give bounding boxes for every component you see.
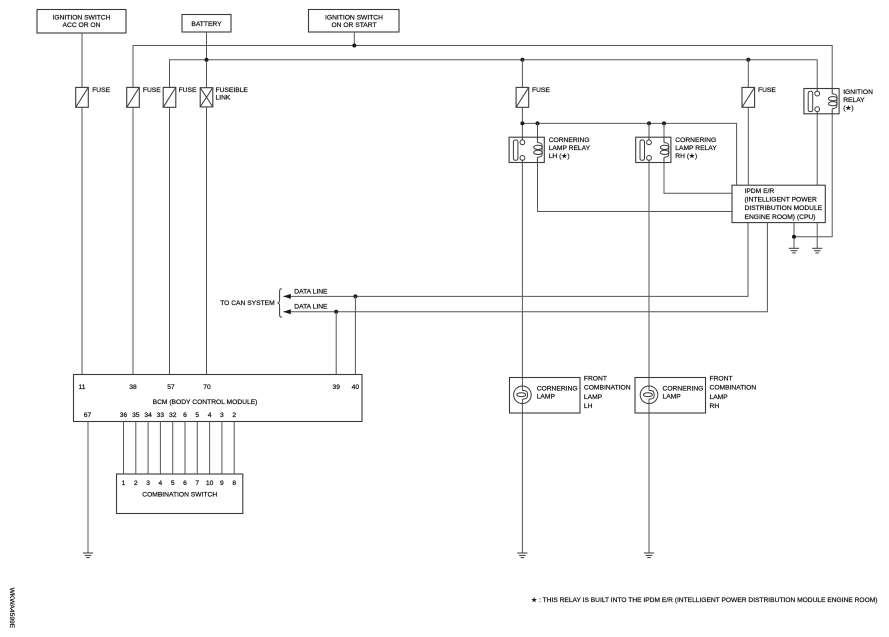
wires: BCM to combination switch <box>124 422 235 475</box>
ground: cornering lamp RH <box>644 553 654 558</box>
brace: CAN system <box>278 289 282 317</box>
svg-text:57: 57 <box>167 384 175 391</box>
svg-text:LAMP: LAMP <box>537 394 556 401</box>
svg-text:ON OR START: ON OR START <box>331 22 376 29</box>
wire: fuse F4 down to LH relay contact <box>521 107 523 137</box>
svg-text:CORNERING: CORNERING <box>537 385 578 392</box>
node: junction bus C at RH relay contact <box>647 121 651 125</box>
svg-text:36: 36 <box>120 412 128 419</box>
wire: bus C drop to LH relay coil <box>537 123 539 137</box>
box: IGNITION SWITCH ON OR START <box>309 10 400 33</box>
lamp: cornering lamp LH <box>514 386 532 404</box>
box: COMBINATION SWITCH <box>117 474 243 514</box>
svg-text:RELAY: RELAY <box>843 97 865 104</box>
svg-text:70: 70 <box>203 384 211 391</box>
wire: data line 2 to BCM pin 39 <box>335 312 337 375</box>
fuseible link FL <box>200 88 213 107</box>
fuse F3 <box>163 87 176 107</box>
label: CORNERING LAMP RELAY LH <box>549 137 591 160</box>
ground: IPDM right <box>812 248 822 253</box>
wire: battery down to fuseible link <box>206 32 208 88</box>
svg-text:DATA LINE: DATA LINE <box>294 304 328 311</box>
svg-text:IGNITION: IGNITION <box>843 89 873 96</box>
wire: ignition switch ACC to fuse F1 <box>81 33 83 87</box>
svg-text:COMBINATION SWITCH: COMBINATION SWITCH <box>142 492 217 499</box>
node: junction bus C at LH relay coil <box>536 121 540 125</box>
svg-text:5: 5 <box>195 412 199 419</box>
svg-text:FUSE: FUSE <box>532 87 550 94</box>
svg-text:40: 40 <box>352 384 360 391</box>
wire: fuse F1 to BCM pin 11 <box>81 107 83 374</box>
wire: ignition relay coil return to ground junction <box>794 114 832 237</box>
wire: LH relay contact to cornering lamp LH <box>521 163 523 391</box>
box: front combination lamp LH <box>510 378 581 414</box>
arrow: data line 1 <box>283 294 291 299</box>
wire: cornering lamp RH to ground <box>648 399 650 553</box>
svg-text:(★): (★) <box>843 104 853 112</box>
svg-text:ACC OR ON: ACC OR ON <box>63 22 101 29</box>
wire: IPDM ground lead right <box>816 223 818 249</box>
svg-text:6: 6 <box>183 480 187 487</box>
svg-text:ENGINE ROOM) (CPU): ENGINE ROOM) (CPU) <box>745 214 816 221</box>
wire: data line 1 to BCM pin 40 <box>354 296 356 374</box>
svg-text:8: 8 <box>232 480 236 487</box>
wire: bus C drop to RH relay contact <box>648 123 650 137</box>
wire: fuse F3 to BCM pin 57 <box>169 107 171 374</box>
svg-text:FUSE: FUSE <box>143 87 161 94</box>
svg-text:RH: RH <box>710 403 720 410</box>
node: junction bus C at LH relay contact <box>520 121 524 125</box>
box: BATTERY <box>182 15 231 33</box>
label: FRONT COMBINATION LAMP LH <box>584 376 631 411</box>
svg-text:BCM (BODY CONTROL MODULE): BCM (BODY CONTROL MODULE) <box>153 399 258 406</box>
svg-text:COMBINATION: COMBINATION <box>584 385 631 392</box>
svg-text:CORNERING: CORNERING <box>663 385 704 392</box>
wire: ignition relay fuse F5 to IPDM <box>747 107 749 185</box>
svg-text:DISTRIBUTION MODULE: DISTRIBUTION MODULE <box>745 205 823 212</box>
svg-text:6: 6 <box>183 412 187 419</box>
svg-text:FUSE: FUSE <box>179 87 197 94</box>
svg-text:DATA LINE: DATA LINE <box>294 289 328 296</box>
svg-text:33: 33 <box>157 412 165 419</box>
svg-text:CORNERING: CORNERING <box>675 137 716 144</box>
combination switch pins 1 2 3 4 5 6 7 10 9 8 <box>122 480 237 487</box>
svg-text:TO CAN SYSTEM: TO CAN SYSTEM <box>220 300 275 307</box>
node: junction ignition switch on bus A <box>352 44 356 48</box>
wire: bus B drop to fuse F4 <box>521 60 523 88</box>
node: junction ground link <box>792 235 796 239</box>
wire: fuseible link to BCM pin 70 <box>206 107 208 375</box>
svg-text:3: 3 <box>220 412 224 419</box>
wire: ignition switch ON OR START down to bus A <box>353 32 355 46</box>
svg-text:LAMP: LAMP <box>663 394 682 401</box>
arrow: data line 2 <box>283 309 291 314</box>
wire: bus B from fuse F3 to ignition relay contact <box>170 60 818 89</box>
svg-text:IGNITION SWITCH: IGNITION SWITCH <box>53 15 111 22</box>
svg-text:FUSE: FUSE <box>758 87 776 94</box>
svg-text:FRONT: FRONT <box>710 376 733 383</box>
wire: bus C from fuse F4 to IPDM top <box>522 123 736 185</box>
svg-text:3: 3 <box>146 480 150 487</box>
box: IPDM E/R <box>732 185 825 222</box>
BCM bottom pins 36 35 34 33 32 6 5 4 3 2 <box>120 412 237 419</box>
svg-text:CORNERING: CORNERING <box>549 137 590 144</box>
svg-text:WKWA4599E: WKWA4599E <box>8 588 15 629</box>
svg-text:10: 10 <box>206 480 214 487</box>
svg-text:COMBINATION: COMBINATION <box>710 385 757 392</box>
svg-text:RH (★): RH (★) <box>675 152 697 160</box>
wire: LH relay coil return to IPDM <box>538 163 733 212</box>
wire: bus C drop to RH relay coil <box>663 123 665 137</box>
wire: cornering lamp LH to ground <box>521 399 523 553</box>
svg-text:4: 4 <box>208 412 212 419</box>
svg-text:11: 11 <box>79 384 86 391</box>
svg-text:67: 67 <box>84 412 92 419</box>
ground: IPDM left <box>789 248 799 253</box>
svg-text:LAMP RELAY: LAMP RELAY <box>675 145 717 152</box>
wire: RH relay coil return to IPDM <box>664 163 732 194</box>
svg-text:IPDM E/R: IPDM E/R <box>745 188 775 195</box>
label: FRONT COMBINATION LAMP RH <box>710 376 757 411</box>
svg-text:FRONT: FRONT <box>584 376 607 383</box>
svg-text:FUSEIBLE: FUSEIBLE <box>216 87 249 94</box>
svg-text:BATTERY: BATTERY <box>191 21 222 28</box>
svg-text:39: 39 <box>332 384 340 391</box>
svg-text:LH: LH <box>584 403 593 410</box>
node: junction fuse F4 on bus B <box>520 58 524 62</box>
relay U3 ignition relay <box>804 89 839 114</box>
svg-text:2: 2 <box>232 412 236 419</box>
relay U1 cornering lamp relay LH <box>509 137 544 162</box>
svg-text:2: 2 <box>134 480 138 487</box>
node: junction bus C at RH relay coil <box>662 121 666 125</box>
svg-text:1: 1 <box>122 480 126 487</box>
fuse F4 <box>516 87 529 107</box>
label: CORNERING LAMP RELAY RH <box>675 137 717 160</box>
node: junction pin 39 on data line 2 <box>334 310 338 314</box>
svg-text:5: 5 <box>171 480 175 487</box>
svg-text:LAMP: LAMP <box>584 394 603 401</box>
lamp: cornering lamp RH <box>640 386 658 404</box>
svg-text:(INTELLIGENT POWER: (INTELLIGENT POWER <box>745 197 818 204</box>
svg-text:LAMP: LAMP <box>710 394 729 401</box>
fuse F1 <box>76 87 89 107</box>
label: IGNITION RELAY <box>843 89 873 112</box>
wire: data line 1 from IPDM to CAN <box>283 223 748 297</box>
svg-text:35: 35 <box>132 412 140 419</box>
node: junction pin 40 on data line 1 <box>353 294 357 298</box>
label: CORNERING LAMP (LH) <box>537 385 578 400</box>
svg-text:IGNITION SWITCH: IGNITION SWITCH <box>325 15 383 22</box>
node: junction fuse F5 on bus B <box>746 58 750 62</box>
svg-text:7: 7 <box>195 480 199 487</box>
box: front combination lamp RH <box>635 378 706 414</box>
wire: RH relay contact to cornering lamp RH <box>648 163 650 391</box>
svg-text:LH (★): LH (★) <box>549 152 570 160</box>
svg-text:LINK: LINK <box>216 95 231 102</box>
wire: IPDM ground lead left <box>793 223 795 249</box>
svg-text:32: 32 <box>169 412 177 419</box>
svg-text:34: 34 <box>144 412 152 419</box>
svg-text:9: 9 <box>220 480 224 487</box>
ground: cornering lamp LH <box>517 553 527 558</box>
svg-text:LAMP RELAY: LAMP RELAY <box>549 145 591 152</box>
ground: BCM pin 67 <box>83 553 93 558</box>
wire: bus A from fuse F2 to ignition relay coil <box>133 46 832 89</box>
svg-text:FUSE: FUSE <box>92 87 110 94</box>
svg-text:★ : THIS RELAY IS BUILT INTO T: ★ : THIS RELAY IS BUILT INTO THE IPDM E/… <box>531 596 877 604</box>
label: CORNERING LAMP (RH) <box>663 385 704 400</box>
relay U2 cornering lamp relay RH <box>636 137 671 162</box>
wire: fuse F2 to BCM pin 38 <box>132 107 134 374</box>
box: BCM body control module <box>74 375 363 422</box>
label: FUSEIBLE LINK <box>216 87 249 102</box>
fuse F5 <box>742 87 755 107</box>
wire: bus B drop to fuse F5 <box>747 60 749 88</box>
wire: BCM pin 67 to ground <box>87 422 89 554</box>
wire: data line 2 from IPDM to CAN <box>283 223 767 312</box>
svg-text:4: 4 <box>159 480 163 487</box>
node: junction battery on bus B <box>205 58 209 62</box>
fuse F2 <box>127 87 140 107</box>
wire: ignition relay contact to IPDM top <box>816 114 818 185</box>
svg-text:38: 38 <box>129 384 137 391</box>
box: IGNITION SWITCH ACC OR ON <box>37 10 126 34</box>
